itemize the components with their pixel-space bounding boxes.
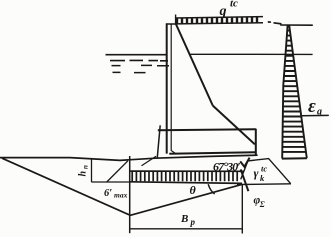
svg-text:q: q xyxy=(220,4,227,19)
backfill surface line right xyxy=(280,24,313,26)
pressure rectangle bottom line xyxy=(92,181,130,183)
label h_n (rotated) xyxy=(78,165,90,177)
pressure rectangle diagonal xyxy=(107,161,128,182)
sigma max hypotenuse xyxy=(2,158,130,215)
distributed load band q bottom line xyxy=(175,23,263,24)
arrow tick at 67deg30 vertex xyxy=(240,158,249,167)
active pressure wedge Ea hatching xyxy=(282,31,306,152)
label Bp xyxy=(180,213,196,227)
label q^tc xyxy=(220,0,239,19)
leader line under Ea xyxy=(302,114,329,116)
label Ea xyxy=(308,96,322,118)
slip line theta xyxy=(130,184,242,215)
svg-text:67°30′: 67°30′ xyxy=(213,159,240,173)
svg-text:n: n xyxy=(82,165,90,169)
ground water line right of wall xyxy=(191,53,313,55)
bearing pressure band bottom line xyxy=(130,182,242,184)
wall stem front face inner line xyxy=(171,24,176,154)
svg-text:ε: ε xyxy=(308,96,316,117)
distributed load band q top line xyxy=(175,17,263,18)
distributed load band left closure xyxy=(175,15,177,25)
svg-text:p: p xyxy=(190,217,196,227)
dimension h_n vertical line xyxy=(91,159,93,182)
label phi I xyxy=(254,195,265,209)
active pressure wedge Ea left edge xyxy=(282,25,287,158)
dash-dot continuation of surface line xyxy=(268,22,282,24)
wall stem back face lower segment xyxy=(213,106,255,145)
soil wedge bottom line xyxy=(237,183,291,186)
leader tick at foundation toe xyxy=(142,156,157,166)
dimension line Bp xyxy=(130,228,242,230)
label gamma k tc xyxy=(254,164,268,184)
wall stem top cap xyxy=(166,23,176,25)
bearing pressure band top line xyxy=(130,170,243,172)
water symbol dashes row 2 xyxy=(112,64,170,66)
angle ray 67deg30 xyxy=(241,169,249,191)
label theta xyxy=(190,183,197,197)
water symbol dashes row 1 xyxy=(110,59,168,61)
label 67 deg 30 min xyxy=(213,159,240,173)
wall stem back face upper segment xyxy=(176,24,213,106)
distributed load band hatching xyxy=(177,17,257,23)
foundation slab top line xyxy=(158,129,256,130)
theta angle arc xyxy=(208,184,214,194)
vertical line at pressure apex / Bp left tick xyxy=(129,156,131,233)
active pressure wedge Ea right edge xyxy=(289,25,307,158)
svg-text:6′: 6′ xyxy=(104,188,112,199)
water surface line left of wall xyxy=(106,54,167,56)
svg-text:h: h xyxy=(78,171,89,177)
svg-text:tc: tc xyxy=(230,0,238,10)
wall stem front face outer line xyxy=(166,23,168,153)
bearing pressure band hatching xyxy=(132,172,237,181)
foundation slab bottom line xyxy=(169,152,256,154)
svg-text:k: k xyxy=(260,173,265,183)
foundation slab right edge xyxy=(255,129,257,155)
svg-text:tc: tc xyxy=(261,164,267,174)
label sigma'max xyxy=(104,188,128,200)
water symbol dashes row 3 xyxy=(113,71,146,73)
dimension Bp right tick xyxy=(241,184,243,233)
svg-text:θ: θ xyxy=(190,183,197,197)
soil wedge trapezoid gamma xyxy=(241,159,291,184)
svg-text:B: B xyxy=(180,213,188,225)
foundation slab left edge xyxy=(157,125,160,158)
svg-text:γ: γ xyxy=(254,166,259,180)
svg-text:max: max xyxy=(114,191,128,200)
svg-text:Σ: Σ xyxy=(259,200,265,209)
active pressure wedge Ea bottom xyxy=(282,157,307,159)
ground line xyxy=(0,155,258,160)
